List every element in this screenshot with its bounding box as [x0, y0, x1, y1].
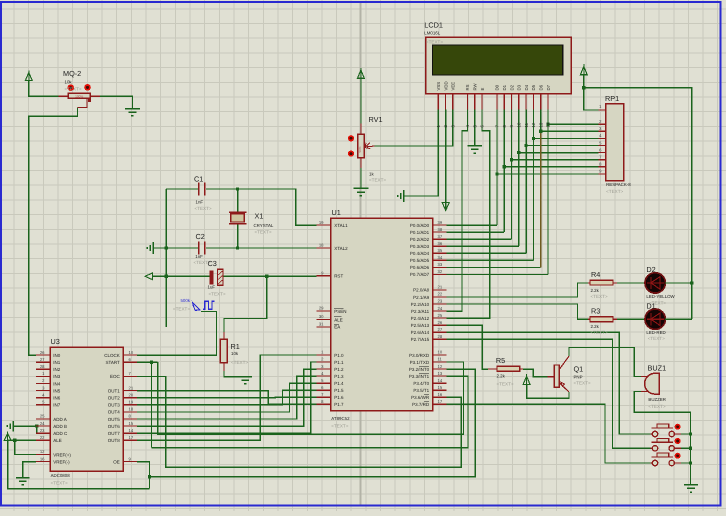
pin OUT4 U3: [123, 411, 137, 413]
pin P3.5/T1 U1: [433, 389, 447, 391]
pin P3.0/RXD U1: [433, 354, 447, 356]
pin 3 RP1: [599, 130, 606, 132]
wire RST down to R1: [224, 276, 267, 332]
svg-text:P3.0/RXD: P3.0/RXD: [409, 353, 430, 358]
svg-text:14: 14: [129, 428, 134, 433]
svg-text:BUZZER: BUZZER: [648, 397, 666, 402]
svg-text:30: 30: [319, 314, 324, 319]
wire power to U3 ALE: [8, 439, 36, 441]
svg-text:12: 12: [40, 449, 45, 454]
capacitor C1: [198, 183, 200, 196]
svg-text:22: 22: [438, 292, 443, 297]
svg-text:27: 27: [40, 357, 45, 362]
pin P2.7/A15 U1: [433, 338, 447, 340]
pin VEE LCD1: [452, 94, 454, 110]
svg-text:1k: 1k: [369, 171, 374, 176]
svg-text:<TEXT>: <TEXT>: [574, 381, 591, 386]
potentiometer RV1: [360, 124, 362, 135]
wire MQ-2 wiper to ADC IN0: [29, 108, 78, 356]
pin P3.6/WR U1: [433, 396, 447, 398]
ground (VREF-): [16, 477, 30, 479]
wire C2 ground to plate: [153, 247, 198, 249]
svg-text:P3.5/T1: P3.5/T1: [413, 388, 429, 393]
resistor R1: [220, 339, 227, 363]
pin P2.1/A9 U1: [433, 296, 447, 298]
wire MQ-2 right to ground: [100, 96, 132, 108]
wire source to U3 CLOCK: [137, 311, 217, 355]
svg-text:<TEXT>: <TEXT>: [426, 40, 443, 45]
pin P3.4/T0 U1: [433, 382, 447, 384]
wire U1 P0.3/AD3 to LCD D3: [447, 245, 519, 247]
svg-text:START: START: [105, 360, 120, 365]
wire P2.2 to R3: [447, 304, 588, 319]
svg-text:OUT7: OUT7: [108, 431, 120, 436]
buzzer BUZ1: [641, 376, 650, 378]
square wave source 500k: [193, 302, 200, 310]
svg-text:ALE: ALE: [53, 438, 62, 443]
pin 7 RP1: [599, 159, 606, 161]
resistor R4: [588, 282, 590, 284]
pin P0.7/AD7 U1: [433, 273, 447, 275]
wire buzzer bottom to button rail: [634, 392, 690, 485]
wire ground to ADD B: [13, 425, 36, 427]
svg-text:IN5: IN5: [53, 388, 61, 393]
junction D5 / RP1: [532, 137, 535, 140]
junction C1-rail at C2 row: [165, 246, 168, 249]
resistor R5: [488, 368, 497, 370]
wire D7 to RP1 pin 2: [548, 123, 599, 125]
pin VDD LCD1: [445, 94, 447, 110]
svg-text:VDD: VDD: [443, 81, 448, 90]
svg-text:LED-RED: LED-RED: [646, 330, 665, 335]
pin ADD A U3: [36, 418, 50, 420]
svg-text:16: 16: [438, 392, 443, 397]
wire power to RP1 pin 1: [584, 88, 599, 110]
svg-text:10k: 10k: [65, 79, 73, 84]
wire U3 OUT5 to U1 P1.3: [137, 376, 317, 419]
pin OUT7 U3: [123, 432, 137, 434]
wire C1 right to XTAL1: [206, 189, 317, 225]
svg-text:D2: D2: [646, 265, 655, 274]
pin P3.7/RD U1: [433, 403, 447, 405]
wire RV1 wiper: [375, 145, 453, 147]
wire D2 to RP1 pin 7: [512, 159, 599, 161]
svg-text:25: 25: [438, 313, 443, 318]
IC U1 AT89C52: [331, 218, 433, 410]
svg-text:IN1: IN1: [53, 360, 61, 365]
svg-text:1uF: 1uF: [208, 285, 216, 290]
svg-text:U1: U1: [332, 208, 341, 217]
svg-text:<TEXT>: <TEXT>: [255, 229, 272, 234]
svg-text:2.2k: 2.2k: [591, 324, 600, 329]
pin P0.2/AD2 U1: [433, 238, 447, 240]
svg-text:<TEXT>: <TEXT>: [173, 307, 190, 312]
wire START branch to INT1 rail: [150, 362, 152, 448]
svg-text:2.2k: 2.2k: [497, 374, 506, 379]
LED D1 (red): [645, 309, 665, 329]
pin P0.6/AD6 U1: [433, 266, 447, 268]
wire LCD E down to P2.4: [447, 110, 490, 319]
pin 6 RP1: [599, 152, 606, 154]
svg-text:P1.3: P1.3: [334, 374, 344, 379]
svg-text:IN2: IN2: [53, 367, 61, 372]
wire to VREF+: [15, 440, 36, 454]
junction D1 / RP1: [503, 165, 506, 168]
pin P1.6 U1: [317, 396, 331, 398]
junction D7 / RP1: [546, 123, 549, 126]
svg-text:RESPACK-8: RESPACK-8: [606, 182, 631, 187]
svg-text:CLOCK: CLOCK: [104, 353, 120, 358]
ground (RV1): [353, 187, 368, 189]
red cap SW2: [675, 438, 681, 444]
svg-text:<TEXT>: <TEXT>: [65, 86, 82, 91]
svg-text:Q1: Q1: [574, 364, 584, 373]
svg-text:P3.2/INT0: P3.2/INT0: [409, 367, 430, 372]
wire U3 EOC to P3.6 rail: [137, 376, 461, 467]
svg-text:LCD1: LCD1: [424, 20, 443, 29]
push button SW1: [652, 427, 673, 429]
wire U3 OUT1 to U1 P1.7: [137, 391, 317, 405]
svg-text:23: 23: [438, 299, 443, 304]
svg-text:XTAL2: XTAL2: [334, 246, 348, 251]
ground (RW): [468, 145, 482, 147]
svg-text:RST: RST: [334, 274, 343, 279]
wire U1 P0.2/AD2 to LCD D2: [447, 238, 512, 240]
wire RV1 bottom to ground: [360, 158, 362, 168]
pin IN6 U3: [36, 397, 50, 399]
wire LCD D6 column: [540, 110, 542, 132]
svg-text:IN4: IN4: [53, 381, 61, 386]
svg-text:17: 17: [438, 399, 443, 404]
svg-text:<TEXT>: <TEXT>: [591, 330, 608, 335]
pin P0.5/AD5 U1: [433, 259, 447, 261]
pin 1 RP1: [599, 109, 606, 111]
svg-text:50%: 50%: [358, 146, 362, 152]
svg-text:OUT3: OUT3: [108, 403, 120, 408]
svg-text:RW: RW: [473, 82, 478, 90]
ground (R1): [238, 376, 252, 378]
wire LCD D5 column: [532, 110, 534, 139]
junction C1/X1: [236, 187, 239, 190]
wire U3 OUT6 to U1 P1.2: [137, 369, 317, 426]
svg-text:1nF: 1nF: [195, 254, 203, 259]
resistor R3: [588, 318, 590, 320]
wire P2.1 to R4: [447, 283, 588, 297]
pin IN7 U3: [36, 404, 50, 406]
wire U3 OE down: [137, 462, 150, 489]
pin P1.2 U1: [317, 368, 331, 370]
junction RP1 power: [582, 86, 585, 89]
wire C2 right to XTAL2: [206, 247, 317, 249]
svg-text:ADD C: ADD C: [53, 431, 68, 436]
svg-text:D6: D6: [539, 84, 544, 90]
wire R3 to D1: [617, 318, 646, 320]
svg-text:LM016L: LM016L: [424, 31, 440, 36]
pin START U3: [123, 361, 137, 363]
pin P1.3 U1: [317, 375, 331, 377]
wire +5V rail to LEDs: [584, 88, 692, 320]
pin RW LCD1: [474, 94, 476, 110]
svg-text:P0.5/AD5: P0.5/AD5: [410, 258, 430, 263]
wire SW1 to rail: [681, 433, 690, 435]
pin IN1 U3: [36, 361, 50, 363]
wire VREF- to ground: [23, 462, 36, 478]
svg-text:39: 39: [438, 220, 443, 225]
pin 4 RP1: [599, 137, 606, 139]
pin P0.0/AD0 U1: [433, 224, 447, 226]
wire LCD VDD down: [445, 110, 447, 203]
svg-text:17: 17: [129, 435, 134, 440]
svg-text:P0.7/AD7: P0.7/AD7: [410, 272, 430, 277]
svg-text:U3: U3: [51, 337, 60, 346]
svg-text:BUZ1: BUZ1: [648, 363, 667, 372]
pin IN3 U3: [36, 375, 50, 377]
svg-text:ADD B: ADD B: [53, 424, 67, 429]
pin 5 RP1: [599, 145, 606, 147]
svg-text:R3: R3: [591, 307, 600, 316]
svg-text:15: 15: [438, 385, 443, 390]
resistor pack RP1 RESPACK-8: [606, 104, 624, 181]
wire LCD D3 column: [518, 110, 520, 153]
svg-text:28: 28: [438, 334, 443, 339]
svg-text:ADC0808: ADC0808: [51, 473, 71, 478]
svg-text:P0.6/AD6: P0.6/AD6: [410, 265, 430, 270]
wire D0 to RP1 pin 9: [497, 173, 599, 175]
svg-text:IN6: IN6: [53, 396, 61, 401]
svg-text:26: 26: [40, 350, 45, 355]
wire R4 to D2: [617, 282, 646, 284]
svg-text:ALE: ALE: [334, 317, 343, 322]
svg-text:OE: OE: [113, 459, 120, 464]
svg-text:22: 22: [40, 435, 45, 440]
wire +5V bottom rail to INT0: [150, 369, 476, 477]
power terminal (RV1): [358, 70, 365, 78]
pin EA U1: [317, 326, 331, 328]
push button SW3: [652, 456, 673, 458]
svg-text:27: 27: [438, 327, 443, 332]
svg-text:D5: D5: [531, 84, 536, 90]
svg-text:<TEXT>: <TEXT>: [51, 480, 68, 485]
red cap SW1: [675, 424, 681, 430]
svg-text:13: 13: [538, 122, 543, 127]
capacitor C2: [198, 242, 200, 255]
svg-text:E: E: [480, 88, 485, 91]
ground terminal (VSS, rotated): [403, 190, 405, 202]
pin P2.4/A12 U1: [433, 317, 447, 319]
svg-text:D0: D0: [495, 84, 500, 90]
pin D4 LCD1: [525, 94, 527, 110]
svg-text:C3: C3: [208, 259, 217, 268]
svg-text:2.2k: 2.2k: [591, 288, 600, 293]
svg-text:18: 18: [129, 407, 134, 412]
junction D4 / RP1: [525, 144, 528, 147]
pin 2 RP1: [599, 123, 606, 125]
svg-text:<TEXT>: <TEXT>: [331, 423, 348, 428]
svg-text:32: 32: [438, 269, 443, 274]
svg-text:P2.1/A9: P2.1/A9: [413, 295, 430, 300]
wire P2.6 to button1: [447, 332, 651, 434]
svg-text:P3.4/T0: P3.4/T0: [413, 381, 429, 386]
svg-text:<TEXT>: <TEXT>: [648, 404, 665, 409]
svg-text:AT89C52: AT89C52: [331, 416, 350, 421]
wire SW2 to rail: [681, 447, 690, 449]
svg-text:EA: EA: [334, 325, 340, 330]
pin P1.7 U1: [317, 403, 331, 405]
wire LCD D1 column: [503, 110, 505, 167]
pin OUT1 U3: [123, 390, 137, 392]
wire ADD B to ADD C: [37, 426, 39, 433]
svg-text:P2.2/A10: P2.2/A10: [411, 302, 430, 307]
wire P2.5 to R5: [447, 325, 488, 369]
wire power to MQ-2 left: [29, 81, 59, 96]
svg-text:P2.6/A14: P2.6/A14: [411, 330, 430, 335]
pin P1.5 U1: [317, 389, 331, 391]
svg-text:VEE: VEE: [451, 82, 456, 91]
svg-text:P2.0/A8: P2.0/A8: [413, 288, 430, 293]
pin RST U1: [317, 275, 331, 277]
ground terminal (C2 left, rotated): [152, 242, 154, 254]
wire SW3 to rail: [681, 462, 690, 464]
svg-text:10k: 10k: [231, 351, 239, 356]
pin P1.1 U1: [317, 361, 331, 363]
svg-text:<TEXT>: <TEXT>: [648, 336, 665, 341]
svg-text:18: 18: [319, 243, 324, 248]
svg-text:D1: D1: [502, 84, 507, 90]
wire LCD D2 column: [511, 110, 513, 160]
wire Q1 emitter to +5V: [527, 385, 569, 398]
wire MQ-2 wiper stub: [78, 98, 87, 107]
capacitor C3 (polarized): [209, 271, 213, 285]
ground (MQ-2): [125, 108, 140, 110]
svg-text:IN7: IN7: [53, 403, 61, 408]
svg-text:21: 21: [438, 285, 443, 290]
svg-text:PNP: PNP: [574, 375, 583, 380]
junction RST/C3 left: [165, 275, 168, 278]
pin ALE U3: [36, 439, 50, 441]
svg-text:<TEXT>: <TEXT>: [497, 381, 514, 386]
svg-text:IN3: IN3: [53, 374, 61, 379]
svg-text:R4: R4: [591, 270, 600, 279]
push button SW2: [652, 441, 673, 443]
pin P0.3/AD3 U1: [433, 245, 447, 247]
svg-text:ADD A: ADD A: [53, 417, 67, 422]
svg-text:D3: D3: [517, 84, 522, 90]
pin P3.2/INT0 U1: [433, 368, 447, 370]
wire power to RV1: [360, 78, 362, 123]
svg-text:X1: X1: [255, 211, 264, 220]
wire U1 P0.5/AD5 to LCD D5: [447, 259, 534, 261]
svg-text:<TEXT>: <TEXT>: [591, 294, 608, 299]
junction button3 rail: [689, 461, 692, 464]
pin RS LCD1: [466, 94, 468, 110]
IC U3 ADC0808: [50, 347, 123, 471]
pin OUT3 U3: [123, 404, 137, 406]
junction START branch: [150, 361, 153, 364]
wire bottom-left +5V rail: [8, 440, 150, 488]
pin VREF(-) U3: [36, 461, 50, 463]
svg-text:37: 37: [438, 234, 443, 239]
wire U3 OUT3 to U1 P1.5: [137, 390, 317, 405]
svg-text:P1.6: P1.6: [334, 395, 344, 400]
pin P2.6/A14 U1: [433, 331, 447, 333]
wire U3 OUT7 to U1 P1.1: [137, 362, 317, 433]
svg-text:33: 33: [438, 262, 443, 267]
red cap SW3: [675, 453, 681, 459]
svg-text:36: 36: [438, 241, 443, 246]
svg-text:P0.1/AD1: P0.1/AD1: [410, 230, 430, 235]
wire U3 OUT2 to U1 P1.6: [137, 396, 317, 398]
svg-text:19: 19: [129, 400, 134, 405]
svg-text:D7: D7: [546, 84, 551, 90]
svg-text:CRYSTAL: CRYSTAL: [254, 223, 274, 228]
wire C1 left rail down to EA: [165, 189, 167, 327]
wire LCD RS down to P2.3: [447, 110, 468, 312]
svg-text:<TEXT>: <TEXT>: [369, 177, 386, 182]
pin D6 LCD1: [540, 94, 542, 110]
svg-text:11: 11: [438, 357, 443, 362]
junction D3 / RP1: [517, 151, 520, 154]
wire U3 START: [137, 361, 158, 363]
ground terminal (ADD B, rotated): [12, 421, 14, 432]
LED D2 (yellow): [645, 273, 665, 293]
pin OUT8 U3: [123, 439, 137, 441]
interactive red dot RV1 up: [348, 135, 354, 141]
svg-text:13: 13: [438, 371, 443, 376]
svg-text:24: 24: [438, 306, 443, 311]
pin P2.5/A13 U1: [433, 324, 447, 326]
pin VREF(+) U3: [36, 454, 50, 456]
svg-text:10: 10: [517, 122, 522, 127]
svg-text:P1.5: P1.5: [334, 388, 344, 393]
pin OUT6 U3: [123, 425, 137, 427]
wire D4 to RP1 pin 5: [526, 145, 598, 147]
pin 9 RP1: [599, 173, 606, 175]
ground (buttons): [684, 484, 698, 486]
pin ADD B U3: [36, 425, 50, 427]
wire U1 P0.7/AD7 to LCD D7: [447, 273, 548, 275]
svg-text:PSEN: PSEN: [334, 309, 346, 314]
svg-text:P0.4/AD4: P0.4/AD4: [410, 251, 430, 256]
svg-text:21: 21: [129, 385, 134, 390]
pin OE U3: [123, 461, 137, 463]
crystal X1: [237, 189, 239, 212]
svg-text:<TEXT>: <TEXT>: [606, 189, 623, 194]
wire D6 to RP1 pin 3: [541, 130, 599, 132]
svg-text:P2.5/A13: P2.5/A13: [411, 323, 430, 328]
wire U3 OUT4 to U1 P1.4: [137, 383, 317, 412]
wire D3 to RP1 pin 6: [519, 152, 599, 154]
svg-text:14: 14: [546, 122, 551, 127]
svg-text:29: 29: [319, 306, 324, 311]
junction C1-rail at C3 row: [165, 275, 168, 278]
wire LCD D0 column: [496, 110, 498, 174]
wire D5 to RP1 pin 4: [533, 137, 598, 139]
svg-text:10: 10: [129, 350, 134, 355]
svg-text:RP1: RP1: [605, 94, 619, 103]
pin IN4 U3: [36, 383, 50, 385]
svg-text:<TEXT>: <TEXT>: [209, 291, 226, 296]
svg-text:38: 38: [438, 227, 443, 232]
wire LCD D4 column: [525, 110, 527, 146]
svg-text:12: 12: [438, 364, 443, 369]
wire C1 row left: [166, 188, 198, 190]
svg-text:<TEXT>: <TEXT>: [195, 206, 212, 211]
svg-text:16: 16: [40, 456, 45, 461]
wire U1 P0.1/AD1 to LCD D1: [447, 231, 505, 233]
interactive red dot MQ-2 left: [68, 84, 75, 91]
svg-text:P1.2: P1.2: [334, 367, 344, 372]
svg-text:LED-YELLOW: LED-YELLOW: [646, 294, 675, 299]
